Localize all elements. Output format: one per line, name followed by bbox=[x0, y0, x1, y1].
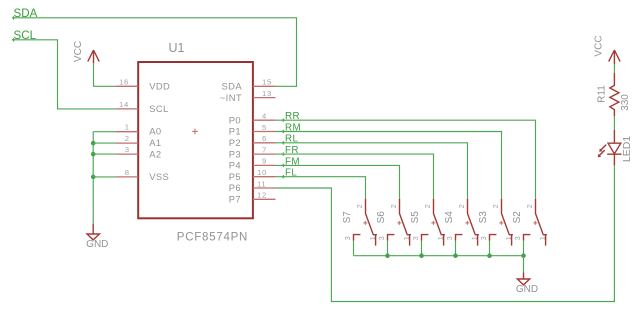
net label RR bbox=[282, 111, 300, 122]
svg-text:2: 2 bbox=[423, 204, 432, 208]
switch S2 bbox=[512, 199, 547, 246]
wire net RL P2 to S4 bbox=[276, 143, 468, 199]
svg-text:2: 2 bbox=[525, 204, 534, 208]
svg-text:3: 3 bbox=[513, 236, 522, 240]
svg-text:10: 10 bbox=[257, 168, 267, 177]
wire SCL net bbox=[13, 40, 116, 109]
svg-text:~INT: ~INT bbox=[220, 92, 242, 103]
ground GND (left) bbox=[86, 224, 108, 250]
op IC U1 body PCF8574PN bbox=[138, 41, 253, 244]
svg-text:SCL: SCL bbox=[149, 103, 168, 114]
LED LED1 bbox=[598, 130, 633, 166]
svg-text:5: 5 bbox=[262, 123, 266, 132]
junction S2 bus GND bbox=[521, 253, 526, 258]
svg-text:3: 3 bbox=[479, 236, 488, 240]
pin 2 A1 bbox=[116, 134, 139, 143]
pin 5 P1 bbox=[253, 123, 276, 132]
junction S4 bus bbox=[453, 253, 458, 258]
svg-text:3: 3 bbox=[125, 145, 129, 154]
svg-text:2: 2 bbox=[389, 204, 398, 208]
switch S5 bbox=[410, 199, 445, 246]
wire switch common bus bbox=[354, 255, 524, 257]
svg-text:P7: P7 bbox=[229, 194, 241, 205]
wire S5 pin3 to bus bbox=[421, 241, 423, 256]
pin 3 A2 bbox=[116, 145, 139, 154]
pin 4 P0 bbox=[253, 112, 276, 121]
svg-text:P1: P1 bbox=[229, 126, 241, 137]
net label FL bbox=[282, 168, 298, 179]
svg-text:3: 3 bbox=[411, 236, 420, 240]
svg-text:9: 9 bbox=[262, 157, 266, 166]
resistor R11 330 bbox=[597, 73, 631, 117]
svg-text:2: 2 bbox=[491, 204, 500, 208]
wire net FM P4 to S6 bbox=[276, 165, 400, 198]
svg-text:2: 2 bbox=[457, 204, 466, 208]
svg-text:A2: A2 bbox=[149, 148, 161, 159]
svg-text:VDD: VDD bbox=[149, 81, 170, 92]
svg-text:S6: S6 bbox=[376, 211, 387, 224]
svg-text:13: 13 bbox=[262, 89, 272, 98]
svg-text:P2: P2 bbox=[229, 137, 241, 148]
pin 16 VDD bbox=[116, 77, 139, 86]
switch S6 bbox=[376, 199, 411, 246]
wire R11 to LED1 bbox=[613, 116, 615, 129]
junction A2 bbox=[91, 152, 96, 157]
pin 1 A0 bbox=[116, 123, 139, 132]
svg-text:3: 3 bbox=[377, 236, 386, 240]
svg-text:330: 330 bbox=[620, 94, 631, 111]
wire net RM P1 to S3 bbox=[276, 132, 502, 199]
svg-text:VSS: VSS bbox=[149, 171, 169, 182]
svg-text:A0: A0 bbox=[149, 126, 161, 137]
svg-text:SDA: SDA bbox=[222, 81, 243, 92]
svg-text:16: 16 bbox=[119, 77, 129, 86]
svg-text:P4: P4 bbox=[229, 160, 241, 171]
svg-text:3: 3 bbox=[445, 236, 454, 240]
svg-text:4: 4 bbox=[262, 112, 267, 121]
svg-text:PCF8574PN: PCF8574PN bbox=[177, 232, 248, 244]
wire S6 pin3 to bus bbox=[387, 241, 389, 256]
junction A1 bbox=[91, 141, 96, 146]
net label RM bbox=[282, 122, 301, 133]
junction S6 bus bbox=[385, 253, 390, 258]
pin 11 P6 bbox=[253, 179, 276, 188]
pin 8 VSS bbox=[116, 168, 139, 177]
svg-text:GND: GND bbox=[86, 239, 108, 250]
wire SDA net bbox=[13, 18, 297, 87]
wire A0/A1/A2/VSS ground bus bbox=[93, 132, 115, 224]
svg-text:3: 3 bbox=[343, 236, 352, 240]
junction S5 bus bbox=[419, 253, 424, 258]
pin 9 P4 bbox=[253, 157, 276, 166]
pin 7 P3 bbox=[253, 145, 276, 154]
svg-text:P0: P0 bbox=[229, 114, 241, 125]
wire S4 pin3 to bus bbox=[455, 241, 457, 256]
svg-text:A1: A1 bbox=[149, 137, 161, 148]
junction VSS bbox=[91, 175, 96, 180]
svg-text:12: 12 bbox=[257, 191, 267, 200]
wire VCC to VDD pin 16 bbox=[94, 63, 116, 86]
wire net P6 to LED bbox=[276, 165, 615, 301]
wire net RR P0 to S2 bbox=[276, 120, 536, 199]
switch S3 bbox=[478, 199, 513, 246]
svg-text:P3: P3 bbox=[229, 148, 241, 159]
svg-text:1: 1 bbox=[402, 236, 411, 240]
net label SDA bbox=[12, 7, 38, 20]
svg-text:1: 1 bbox=[470, 236, 479, 240]
svg-text:R11: R11 bbox=[597, 85, 608, 103]
switch S4 bbox=[444, 199, 479, 246]
svg-text:2: 2 bbox=[125, 134, 129, 143]
svg-text:11: 11 bbox=[257, 179, 266, 188]
ground GND (bottom) bbox=[516, 272, 538, 295]
svg-text:S2: S2 bbox=[512, 211, 523, 224]
wire VCC to R11 bbox=[613, 64, 615, 73]
svg-text:VCC: VCC bbox=[593, 35, 604, 56]
wire bus to GND bbox=[523, 256, 525, 273]
svg-text:S5: S5 bbox=[410, 211, 421, 224]
svg-text:S3: S3 bbox=[478, 211, 489, 224]
supply VCC (right) bbox=[593, 35, 620, 64]
wire S7 pin3 to bus bbox=[353, 241, 355, 256]
svg-text:14: 14 bbox=[119, 100, 129, 109]
svg-text:P6: P6 bbox=[229, 182, 241, 193]
svg-text:S4: S4 bbox=[444, 211, 455, 224]
svg-text:1: 1 bbox=[504, 236, 513, 240]
svg-text:7: 7 bbox=[262, 145, 266, 154]
svg-text:6: 6 bbox=[262, 134, 266, 143]
svg-text:1: 1 bbox=[125, 123, 129, 132]
net label FR bbox=[282, 145, 299, 156]
switch S7 bbox=[342, 199, 377, 246]
pin 15 SDA bbox=[253, 78, 276, 87]
wire net FR P3 to S5 bbox=[276, 154, 434, 199]
net label FM bbox=[282, 156, 300, 167]
pin 14 SCL bbox=[116, 100, 139, 109]
pin 12 P7 bbox=[253, 191, 276, 200]
wire net FL P5 to S7 bbox=[276, 177, 366, 199]
junction S3 bus bbox=[487, 253, 492, 258]
svg-text:1: 1 bbox=[368, 236, 377, 240]
svg-text:GND: GND bbox=[516, 284, 538, 295]
net label RL bbox=[282, 134, 299, 145]
wire S2 pin3 to bus bbox=[523, 241, 525, 256]
svg-text:1: 1 bbox=[436, 236, 445, 240]
net label SCL bbox=[12, 29, 37, 42]
pin 13 ~INT bbox=[253, 89, 276, 98]
svg-text:2: 2 bbox=[355, 204, 364, 208]
svg-text:P5: P5 bbox=[229, 171, 241, 182]
pin 6 P2 bbox=[253, 134, 276, 143]
svg-text:LED1: LED1 bbox=[621, 136, 633, 162]
svg-text:15: 15 bbox=[262, 78, 272, 87]
svg-text:8: 8 bbox=[125, 168, 129, 177]
svg-text:S7: S7 bbox=[342, 211, 353, 224]
wire S3 pin3 to bus bbox=[489, 241, 491, 256]
pin 10 P5 bbox=[253, 168, 276, 177]
svg-text:1: 1 bbox=[538, 236, 547, 240]
supply VCC (left) bbox=[73, 41, 99, 63]
svg-text:VCC: VCC bbox=[73, 41, 84, 62]
svg-text:U1: U1 bbox=[169, 41, 185, 55]
